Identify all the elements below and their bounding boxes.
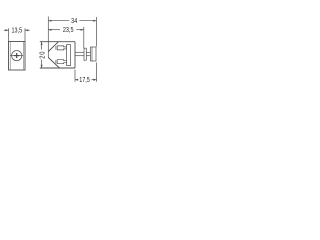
svg-text:17,5: 17,5 [79, 77, 90, 85]
dim 17,5 extension line left [74, 70, 76, 82]
dim 13,5 right arrow [25, 29, 30, 31]
svg-text:34: 34 [71, 18, 78, 26]
dim 34 line right part [79, 20, 96, 22]
bolt head chamfer line [91, 47, 93, 61]
dim 34 right arrow [93, 20, 96, 22]
dim 17,5 line right part [92, 79, 97, 81]
dim 13,5 extension line left [8, 28, 10, 41]
svg-text:23,5: 23,5 [63, 27, 74, 35]
dim 13,5 extension line right [24, 28, 26, 41]
side view top edge with 20-dim extension [40, 41, 75, 43]
dim 23,5 line right part [77, 29, 84, 31]
side view lower-left chamfer [48, 58, 59, 69]
dim 17,5 line left part [75, 79, 78, 81]
dim 34 left arrow [48, 20, 51, 22]
dim 34 line left part [48, 20, 69, 22]
bolt shaft 2 [86, 52, 90, 55]
slot upper arm with neck step [57, 46, 66, 50]
slot vertical channel [67, 45, 71, 66]
dim 20 bottom arrow [41, 65, 43, 68]
dim 23,5 right arrow [81, 29, 84, 31]
bolt collar [84, 48, 86, 60]
svg-text:13,5: 13,5 [11, 27, 22, 35]
side view bottom edge with 20-dim extension [40, 67, 75, 69]
dim 17,5 right arrow [93, 79, 96, 81]
svg-text:20: 20 [39, 51, 47, 59]
dim 23,5 extension line [83, 27, 85, 48]
dim 20 top arrow [41, 42, 43, 45]
cam circle [12, 51, 22, 61]
dim 17,5 left arrow [75, 79, 78, 81]
bolt shaft [75, 52, 84, 55]
dim 20 line upper part [41, 42, 43, 50]
dim 13,5 left arrow [4, 29, 9, 31]
side view right edge [74, 42, 76, 68]
slot lower arm with neck step [57, 60, 66, 64]
dim 34 right extension line [96, 17, 98, 47]
front view housing rectangle [9, 42, 26, 71]
slot upper arm cap [55, 46, 57, 49]
slot lower arm cap [55, 60, 57, 63]
front view inner right line [22, 42, 24, 71]
dim 17,5 extension line right [96, 63, 98, 82]
front view inner left line [9, 42, 11, 71]
side view upper-left chamfer [48, 42, 58, 52]
side view left edge / 34+23,5 extension line [47, 17, 49, 58]
front view cam slot centerline [10, 55, 23, 57]
dim 20 line lower part [41, 60, 43, 69]
bolt head [91, 47, 97, 61]
phillips cross [14, 53, 19, 58]
dim 23,5 line left part [48, 29, 60, 31]
dim 23,5 left arrow [48, 29, 51, 31]
